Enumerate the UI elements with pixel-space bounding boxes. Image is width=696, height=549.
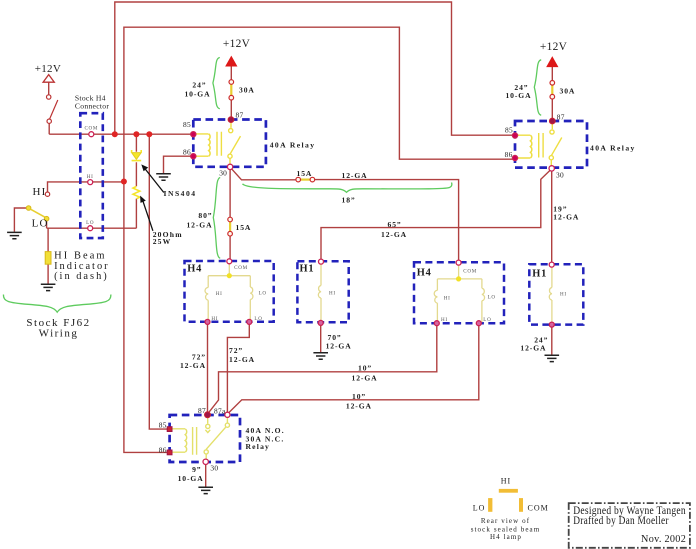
wire: H1 lamp2 ground leg: [551, 327, 553, 355]
svg-text:COM: COM: [463, 268, 477, 274]
switch: stock headlight switch: [47, 95, 51, 99]
lamp H4 left COM terminal: [227, 259, 232, 264]
pictogram: H4 lamp rear view: [499, 489, 518, 493]
svg-text:80”: 80”: [198, 211, 212, 220]
ground: relay3 pin30: [198, 487, 213, 493]
lamp H1 right top terminal: [549, 262, 554, 267]
svg-text:87: 87: [198, 406, 206, 415]
lamp: HI beam indicator: [45, 252, 51, 265]
lamp H4 left HI terminal: [205, 319, 210, 324]
fuse 30A relay1: [230, 84, 232, 97]
ground: H1 lamp1: [313, 353, 328, 359]
lamp H1 left filament: [318, 264, 321, 321]
svg-text:+12V: +12V: [35, 63, 61, 75]
relay K3 pin 87 junction: [205, 412, 211, 418]
svg-text:HI: HI: [216, 291, 223, 297]
wire: LO contact stub: [46, 221, 48, 229]
wire: relay1 pin30 diagonal to 18in feed: [230, 167, 459, 260]
svg-text:HI: HI: [33, 186, 47, 198]
lamp H1 left bottom terminal: [318, 320, 323, 325]
relay K3 pin 86: [167, 450, 172, 455]
svg-text:LO: LO: [32, 218, 49, 230]
wire: HI beam indicator leg: [47, 228, 49, 283]
ground: HI beam indicator: [41, 284, 56, 290]
+12V source arrow (stock, open): [43, 75, 54, 83]
wire: H4 lamp1 LO to relay3 pin87a: [227, 324, 249, 413]
svg-text:87: 87: [557, 113, 565, 122]
svg-text:87: 87: [236, 111, 244, 120]
svg-text:10-GA: 10-GA: [178, 474, 204, 483]
lamp H4 left box: [185, 261, 274, 322]
relay K1 internals: [194, 134, 208, 156]
relay K2 pin 85: [512, 133, 517, 138]
relay K1 pin 85: [191, 132, 196, 137]
node: HI junction: [121, 179, 127, 185]
lamp H1 left top terminal: [319, 259, 324, 264]
wire: LO row: [47, 227, 137, 229]
svg-text:87a: 87a: [214, 407, 226, 416]
lamp H1 left box: [297, 261, 348, 322]
relay K2 internals: [516, 135, 530, 158]
svg-text:Relay: Relay: [246, 442, 271, 451]
svg-text:18”: 18”: [342, 196, 356, 205]
svg-text:LO: LO: [483, 317, 491, 323]
relay K1 pin 87 junction: [228, 117, 234, 123]
svg-text:COM: COM: [84, 126, 98, 132]
lamp H1 right filament: [549, 267, 552, 324]
wire: HI feed loop to relay2 pin86: [124, 27, 515, 181]
svg-text:85: 85: [505, 126, 513, 135]
svg-text:86: 86: [183, 148, 191, 157]
svg-text:86: 86: [505, 150, 513, 159]
svg-text:INS404: INS404: [164, 189, 197, 198]
wire: COM row from dimmer switch to relay1 pin85: [49, 133, 193, 135]
svg-text:12-GA: 12-GA: [326, 342, 352, 351]
svg-text:30A: 30A: [239, 86, 255, 95]
svg-text:30: 30: [556, 171, 564, 180]
fuse 30A relay2: [551, 84, 553, 95]
brace: 24in 10-GA relay2: [534, 60, 541, 116]
wire: relay1 pin30 down through 15A fuse to H4 lamp COM: [229, 169, 231, 259]
svg-text:12-GA: 12-GA: [381, 230, 407, 239]
node: COM junction a: [112, 131, 118, 137]
relay K2 pin 30: [549, 166, 554, 171]
callout arrow 20 Ohm: [143, 200, 153, 231]
wire: relay1 pin87 fuse stalk: [230, 66, 232, 120]
wire: H1 lamp1 ground leg: [320, 325, 322, 352]
+12V source arrow relay2: [547, 57, 558, 66]
wire: COM branch down to relay3 pin85: [149, 134, 169, 429]
wire: 65in feed H1 lamp1 to relay2 pin30: [321, 169, 552, 260]
svg-text:12-GA: 12-GA: [520, 344, 546, 353]
terminal: HI wire end: [45, 192, 49, 196]
svg-text:12-GA: 12-GA: [342, 171, 368, 180]
svg-text:LO: LO: [473, 504, 486, 513]
lamp H1 right box: [529, 264, 583, 324]
lamp H1 right bottom terminal: [549, 322, 554, 327]
brace: 24in 10-GA relay1: [213, 58, 220, 109]
svg-text:COM: COM: [234, 265, 248, 271]
switch: stock dimmer switch: [26, 206, 31, 211]
svg-text:40A Relay: 40A Relay: [270, 140, 316, 149]
wire: HI branch down to relay3 pin86: [124, 182, 170, 453]
svg-text:86: 86: [159, 445, 167, 454]
svg-text:15A: 15A: [297, 169, 313, 178]
connector pin HI: [88, 180, 93, 185]
svg-text:HI: HI: [501, 477, 511, 486]
svg-text:Connector: Connector: [75, 101, 110, 110]
svg-text:Nov. 2002: Nov. 2002: [641, 534, 686, 545]
svg-text:15A: 15A: [236, 223, 252, 232]
svg-text:30: 30: [210, 463, 218, 472]
svg-text:H1: H1: [532, 268, 547, 279]
relay K3 pin 85: [167, 427, 172, 432]
wire: LO dimmer pivot to ground: [14, 208, 28, 232]
svg-text:10-GA: 10-GA: [184, 89, 210, 98]
svg-text:30: 30: [219, 169, 227, 178]
svg-text:10-GA: 10-GA: [505, 91, 531, 100]
lamp H4 right LO terminal: [476, 321, 481, 326]
resistor 20 Ohm 25W: [133, 186, 140, 198]
node: COM junction c: [146, 131, 152, 137]
relay K3 pin 30: [203, 459, 208, 464]
svg-text:12-GA: 12-GA: [229, 355, 255, 364]
wire: HI switch lower leg: [48, 123, 50, 134]
svg-text:LO: LO: [254, 316, 262, 322]
brace: 80in 12-GA: [213, 178, 220, 259]
callout arrow INS404: [145, 169, 164, 193]
svg-text:85: 85: [159, 421, 167, 430]
ground: dimmer switch: [7, 232, 22, 238]
svg-text:LO: LO: [259, 291, 267, 297]
lamp H4 right box: [414, 262, 504, 323]
wire: relay1 pin86 to ground: [164, 156, 194, 173]
ground: relay1 pin86: [156, 174, 171, 180]
wire: relay3 pin30 ground leg: [205, 464, 207, 486]
fuse 15A H4 lamp1: [229, 221, 231, 232]
+12V source arrow relay1: [226, 57, 237, 66]
wire: relay2 pin30 to H1 lamp2: [551, 170, 553, 262]
brace: stock FJ62 wiring: [3, 295, 110, 313]
svg-text:LO: LO: [86, 220, 94, 226]
svg-text:HI: HI: [87, 174, 94, 180]
relay K3 pin 87a: [225, 412, 230, 417]
relay K1 pin 30: [227, 164, 232, 169]
relay K2 pin 87 junction: [549, 118, 555, 124]
relay K2 pin 86: [512, 155, 517, 160]
wire: HI row connector to junction: [48, 182, 124, 192]
svg-text:HI: HI: [441, 317, 448, 323]
svg-text:COM: COM: [528, 504, 549, 513]
connector: stock H4 box: [80, 113, 103, 238]
lamp H4 right filaments: [434, 265, 484, 323]
ground: H1 lamp2: [545, 355, 560, 361]
svg-text:25W: 25W: [153, 237, 172, 246]
svg-text:72”: 72”: [229, 346, 243, 355]
svg-text:12-GA: 12-GA: [180, 361, 206, 370]
connector pin COM: [89, 132, 94, 137]
svg-text:(in dash): (in dash): [54, 271, 109, 282]
svg-text:40A Relay: 40A Relay: [590, 143, 636, 152]
wire: INS404/resistor branch: [135, 134, 137, 228]
svg-text:10”: 10”: [358, 364, 372, 373]
lamp H4 left filaments: [205, 264, 253, 322]
svg-text:LO: LO: [488, 295, 496, 301]
svg-text:Wiring: Wiring: [39, 328, 79, 340]
brace: 18in run: [243, 183, 452, 193]
svg-text:HI: HI: [444, 296, 451, 302]
svg-text:85: 85: [183, 120, 191, 129]
relay K2 40A box: [515, 121, 587, 168]
lamp H4 left LO terminal: [247, 319, 252, 324]
svg-text:12-GA: 12-GA: [553, 213, 579, 222]
fuse 15A feed: [300, 179, 311, 181]
wire: +12V stalk above HI switch: [48, 82, 50, 95]
svg-text:12-GA: 12-GA: [186, 220, 212, 229]
relay K1 pin 86: [191, 154, 196, 159]
svg-text:30A: 30A: [560, 87, 576, 96]
svg-text:10”: 10”: [352, 392, 366, 401]
svg-text:HI: HI: [329, 291, 336, 297]
wire: +12V feed top loop to relay2 pin85: [115, 2, 515, 135]
relay K3 40A NO / 30A NC box: [170, 415, 240, 462]
lamp H4 right COM terminal: [456, 260, 461, 265]
svg-text:H4 lamp: H4 lamp: [490, 533, 522, 541]
svg-text:Drafted by Dan Moeller: Drafted by Dan Moeller: [573, 515, 669, 527]
lamp H4 right HI terminal: [434, 321, 439, 326]
svg-text:12-GA: 12-GA: [352, 373, 378, 382]
node: COM junction b: [133, 131, 139, 137]
svg-text:H1: H1: [300, 264, 315, 275]
wire: 10in run H4 lamp2 LO to relay3 pin87a: [228, 325, 479, 414]
diode INS404: [132, 153, 142, 160]
svg-text:HI: HI: [211, 316, 218, 322]
svg-text:+12V: +12V: [223, 38, 251, 50]
svg-text:HI: HI: [560, 292, 567, 298]
relay K1 40A box: [193, 120, 266, 167]
svg-text:+12V: +12V: [540, 41, 568, 53]
connector pin LO: [88, 226, 93, 231]
svg-text:65”: 65”: [388, 220, 402, 229]
relay K3 internals: [171, 416, 228, 460]
svg-text:stock sealed beam: stock sealed beam: [471, 525, 541, 533]
wire: H4 lamp1 HI to relay3 pin87: [207, 324, 209, 415]
wire: 10in run H4 lamp2 HI to relay3 pin87: [208, 325, 437, 414]
svg-text:Rear view of: Rear view of: [481, 517, 530, 525]
wire: relay2 pin87 fuse stalk: [551, 67, 553, 122]
svg-text:H4: H4: [187, 263, 202, 274]
svg-text:H4: H4: [417, 268, 432, 279]
svg-text:12-GA: 12-GA: [346, 401, 372, 410]
title box: [569, 503, 690, 548]
